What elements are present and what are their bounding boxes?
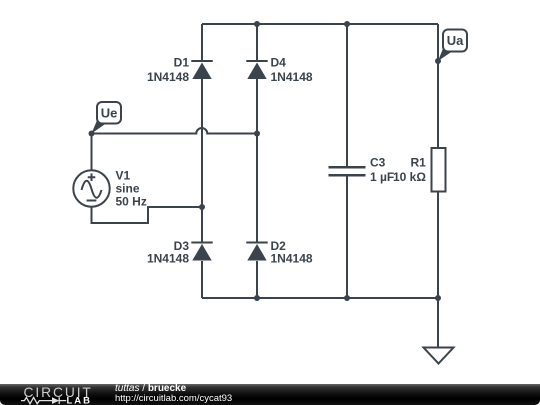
diode D2 xyxy=(246,243,267,261)
wire C3 bottom lead xyxy=(346,176,348,298)
CircuitLab logo wordmark xyxy=(0,384,110,405)
diode D1 xyxy=(191,61,212,79)
svg-text:C3: C3 xyxy=(370,156,386,170)
node junction bottom C3 xyxy=(344,295,350,301)
diode D4 xyxy=(246,61,267,79)
svg-text:R1: R1 xyxy=(411,156,427,170)
svg-text:1N4148: 1N4148 xyxy=(147,252,189,266)
node junction bottom R1-ground xyxy=(435,295,441,301)
svg-text:1N4148: 1N4148 xyxy=(147,70,189,84)
node flag Ua xyxy=(435,30,467,65)
footer bar xyxy=(0,384,540,405)
svg-text:1N4148: 1N4148 xyxy=(271,252,313,266)
wire V1 bottom to bridge xyxy=(92,207,203,223)
svg-text:1 µF: 1 µF xyxy=(370,170,394,184)
wire bottom rail xyxy=(202,297,438,299)
node junction bottom D2 xyxy=(254,295,260,301)
wire V1 top lead xyxy=(91,134,93,171)
wire R1 bottom lead xyxy=(437,192,439,299)
node junction V1 to D1-D3 midpoint xyxy=(199,204,205,210)
wire top rail xyxy=(202,23,438,25)
node junction Ue wire to D4 branch xyxy=(254,131,260,137)
wire D3 bottom lead xyxy=(201,261,203,298)
svg-text:Ue: Ue xyxy=(101,106,118,121)
svg-text:10 kΩ: 10 kΩ xyxy=(393,170,426,184)
ground xyxy=(424,348,454,364)
node junction top C3 xyxy=(344,21,350,27)
wire D4 top lead xyxy=(256,24,258,61)
node junction top D4 xyxy=(254,21,260,27)
wire C3 top lead xyxy=(346,24,348,167)
svg-text:V1: V1 xyxy=(116,169,131,183)
wire Ue horizontal with hop over D1 branch xyxy=(92,128,258,134)
wire ground lead xyxy=(437,298,439,348)
source V1 xyxy=(73,170,109,206)
svg-text:Ua: Ua xyxy=(447,33,464,48)
footer url text xyxy=(115,394,232,404)
node flag Ue xyxy=(89,102,122,137)
logo resistor-diode glyph xyxy=(21,397,66,404)
capacitor C3 xyxy=(329,167,366,175)
svg-text:50 Hz: 50 Hz xyxy=(116,195,147,209)
wire D1 top lead xyxy=(201,24,203,61)
wire D4-D2 middle segment xyxy=(256,79,258,243)
svg-text:sine: sine xyxy=(116,182,140,196)
footer title text xyxy=(115,384,186,394)
wire D2 bottom lead xyxy=(256,261,258,298)
svg-text:D4: D4 xyxy=(271,56,287,70)
svg-text:D1: D1 xyxy=(174,56,190,70)
wire R1 top lead xyxy=(437,24,439,148)
resistor R1 xyxy=(432,148,446,192)
wire D1-D3 middle segment xyxy=(201,79,203,243)
svg-text:1N4148: 1N4148 xyxy=(271,70,313,84)
diode D3 xyxy=(191,243,212,261)
svg-text:LAB: LAB xyxy=(67,396,93,405)
